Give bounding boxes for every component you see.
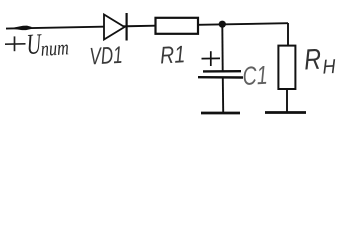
wire: main top wire left segment (arrow to R1) <box>6 26 156 29</box>
svg-text:R: R <box>303 44 322 77</box>
svg-text:пит: пит <box>40 35 69 60</box>
svg-text:C1: C1 <box>242 60 269 91</box>
svg-text:Н: Н <box>322 56 337 79</box>
capacitor C1 <box>198 71 243 77</box>
svg-text:R1: R1 <box>159 41 185 69</box>
svg-text:VD1: VD1 <box>89 42 123 71</box>
node junction dot <box>219 21 226 28</box>
label +Uпит : U with subscript <box>26 27 70 62</box>
wire: main top wire right segment (R1 to corner) <box>198 23 288 25</box>
ground bar under RH <box>265 111 306 114</box>
wire: RH bottom lead <box>286 89 288 112</box>
diode VD1 <box>104 13 127 41</box>
label RH <box>303 43 336 80</box>
label +Uпит : plus sign <box>5 36 26 51</box>
wire: right vertical drop to RH <box>287 23 289 46</box>
resistor RH (load) <box>278 46 295 89</box>
wire: C1 bottom lead <box>222 78 224 113</box>
ground bar under C1 <box>201 112 240 115</box>
capacitor C1 polarity plus <box>202 51 221 66</box>
resistor R1 <box>156 18 199 34</box>
wire: junction down to C1 <box>221 24 223 71</box>
arrowhead at left output <box>10 26 32 31</box>
